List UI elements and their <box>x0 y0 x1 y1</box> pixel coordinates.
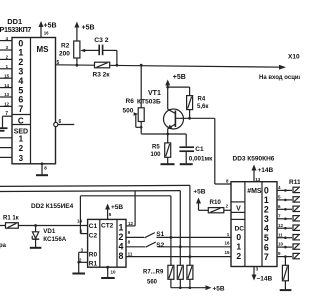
svg-text:6: 6 <box>59 119 62 125</box>
power +5B at DD2 pin 5 <box>105 204 123 220</box>
resistor R4 <box>187 87 209 120</box>
svg-text:R2: R2 <box>61 43 70 50</box>
wire output 5 pin 11 <box>277 232 302 240</box>
multiplexer DD1 box <box>12 38 56 164</box>
connector X10 arrow <box>279 65 286 70</box>
zener diode VD1 <box>32 224 67 247</box>
svg-text:14: 14 <box>77 218 83 223</box>
wire DD2 pin 12 to rail 2 <box>126 191 135 226</box>
svg-text:КТ503Б: КТ503Б <box>137 99 161 106</box>
svg-text:V: V <box>236 206 241 213</box>
power +5B arrow right <box>206 285 225 292</box>
capacitor C3 <box>94 37 109 55</box>
node S1 line to R7 <box>170 236 173 239</box>
svg-text:R4: R4 <box>198 96 206 102</box>
wire output 2 pin 6 <box>277 204 302 212</box>
svg-text:X10: X10 <box>288 54 300 61</box>
svg-text:R10: R10 <box>210 199 222 206</box>
svg-text:8: 8 <box>44 166 47 171</box>
wire input 7 pin 12 <box>0 102 12 107</box>
svg-text:DD3 К590КН6: DD3 К590КН6 <box>233 156 275 163</box>
svg-text:7: 7 <box>5 111 8 117</box>
wire input 0 pin 4 <box>0 36 12 41</box>
ground at ladder termination <box>280 289 292 291</box>
base lead <box>175 117 214 119</box>
svg-text:1: 1 <box>19 135 24 144</box>
svg-text:C2: C2 <box>89 233 98 240</box>
svg-text:8: 8 <box>226 179 229 184</box>
wire bus rail 2 <box>0 191 180 247</box>
wire bus rail 3 <box>80 196 170 238</box>
svg-text:8: 8 <box>119 251 124 261</box>
svg-text:11: 11 <box>278 232 283 237</box>
power +5B at VT1 collector <box>165 74 189 88</box>
svg-text:0,001мк: 0,001мк <box>189 155 213 162</box>
svg-text:7: 7 <box>18 104 23 114</box>
R2 wiper arrow <box>80 49 85 53</box>
wire input 5 pin 14 <box>0 83 12 88</box>
svg-text:10: 10 <box>111 270 117 275</box>
counter DD2 <box>88 219 126 267</box>
svg-text:0: 0 <box>236 232 241 242</box>
wire DD1 output to X10 <box>56 65 284 67</box>
wire bus rail 1 <box>0 185 190 256</box>
wire output 6 pin 10 <box>277 242 302 250</box>
svg-text:200: 200 <box>59 51 70 58</box>
svg-text:560: 560 <box>147 279 158 285</box>
svg-text:0: 0 <box>264 185 269 195</box>
svg-text:R5: R5 <box>152 144 160 150</box>
svg-text:CT2: CT2 <box>101 222 114 229</box>
svg-text:2: 2 <box>226 203 229 208</box>
svg-text:C1: C1 <box>89 223 98 230</box>
svg-text:15: 15 <box>4 73 9 78</box>
svg-text:+5В: +5В <box>111 204 123 211</box>
svg-text:5,6к: 5,6к <box>197 104 208 110</box>
address labels 1 2 3 <box>19 135 24 164</box>
svg-text:7: 7 <box>278 213 281 218</box>
svg-text:+5В: +5В <box>82 25 95 32</box>
wire SED address 1 <box>0 137 12 139</box>
collector <box>168 109 176 113</box>
svg-text:3: 3 <box>19 154 24 163</box>
svg-text:КС156А: КС156А <box>43 236 66 243</box>
svg-text:1: 1 <box>80 228 83 233</box>
switch S2 <box>126 239 231 248</box>
svg-text:+14В: +14В <box>258 167 274 174</box>
svg-text:R1 1к: R1 1к <box>3 215 19 221</box>
channel labels 0-7 <box>264 185 269 261</box>
svg-text:8: 8 <box>128 239 131 244</box>
svg-text:16: 16 <box>44 31 49 36</box>
output weight labels 1 2 4 8 <box>119 222 124 260</box>
wire SED address 2 <box>0 147 12 149</box>
wire output 4 pin 12 <box>277 223 302 231</box>
svg-text:12: 12 <box>128 221 134 226</box>
pin 6 with bubble <box>54 119 75 127</box>
svg-text:2: 2 <box>79 257 82 262</box>
svg-text:S1: S1 <box>156 231 164 238</box>
resistor ladder termination <box>282 257 288 290</box>
ground at DD1 pin 7 <box>0 128 8 131</box>
svg-text:4: 4 <box>278 185 281 190</box>
power -14B at DD3 pin 3 <box>252 267 273 283</box>
power +14B at DD3 pin 13 <box>252 165 274 182</box>
svg-text:MS: MS <box>37 45 50 54</box>
wire SED address 3 <box>0 156 12 158</box>
wire R0 R1 to ground <box>77 248 87 273</box>
wire output 1 pin 5 <box>277 195 302 203</box>
svg-text:DD2 К155ИЕ4: DD2 К155ИЕ4 <box>31 203 74 210</box>
svg-text:R11: R11 <box>289 179 300 186</box>
transistor VT1 <box>137 87 215 134</box>
svg-text:R3 2к: R3 2к <box>93 71 111 78</box>
resistors R7...R9 <box>143 237 193 285</box>
DC address labels 0 1 2 <box>236 232 241 261</box>
svg-text:5: 5 <box>109 212 112 217</box>
resistor R10 <box>208 199 231 213</box>
wire DD2 pin 11 to DD3 DC2 <box>126 252 231 257</box>
svg-text:4: 4 <box>119 241 124 251</box>
svg-text:5: 5 <box>278 195 281 200</box>
svg-text:R6: R6 <box>126 98 135 105</box>
ground at R5 <box>161 163 175 165</box>
capacitor C1 <box>179 146 213 164</box>
resistor R6 (trimmer) <box>123 65 145 134</box>
resistor R2 <box>59 22 95 67</box>
svg-text:+5В: +5В <box>173 74 186 81</box>
input channel labels 0-7 <box>18 38 23 114</box>
switch S1 <box>126 230 231 238</box>
wire input 1 pin 3 <box>0 45 12 50</box>
svg-text:ра: ра <box>0 243 7 249</box>
svg-text:4: 4 <box>264 223 269 233</box>
svg-text:C3 2: C3 2 <box>94 37 109 44</box>
svg-text:+5В: +5В <box>193 188 205 195</box>
ground at DD2 R0 R1 <box>72 273 85 275</box>
svg-text:3: 3 <box>264 214 269 224</box>
svg-text:2: 2 <box>119 232 124 242</box>
svg-text:1: 1 <box>264 195 269 205</box>
wire VT1 base to DD3 pin 8 <box>215 118 231 184</box>
svg-text:12: 12 <box>4 102 9 107</box>
svg-text:13: 13 <box>4 92 9 97</box>
svg-text:2: 2 <box>19 144 24 153</box>
svg-text:R1: R1 <box>89 260 98 267</box>
svg-text:11: 11 <box>128 252 133 257</box>
wire input 3 pin 1 <box>0 64 12 69</box>
wire R2 wiper to C3 <box>84 49 99 51</box>
svg-text:12: 12 <box>278 223 284 228</box>
emitter with arrow <box>168 124 175 129</box>
wire input 6 pin 13 <box>0 92 12 97</box>
wire R7-R9 bottoms to +5B <box>171 279 209 289</box>
R6 wiper <box>134 112 139 115</box>
ground at DD2 pin 10 <box>101 266 116 278</box>
svg-text:R7...R9: R7...R9 <box>143 270 164 276</box>
node S2 line to R8 <box>179 245 182 248</box>
svg-text:6: 6 <box>278 204 281 209</box>
svg-text:#MS: #MS <box>247 188 262 195</box>
svg-text:C: C <box>18 116 24 125</box>
svg-text:1: 1 <box>227 232 230 237</box>
svg-text:−14В: −14В <box>257 276 273 283</box>
power +5B at R10 <box>193 188 208 210</box>
svg-text:15: 15 <box>224 250 230 255</box>
wire input 4 pin 15 <box>0 73 12 78</box>
power +5B at DD1 pin 16 <box>39 21 57 38</box>
analog multiplexer DD3 <box>231 182 277 267</box>
wire output 3 pin 7 <box>277 213 302 221</box>
svg-text:+5В: +5В <box>213 285 225 292</box>
svg-text:9: 9 <box>128 230 131 235</box>
node R6 top <box>140 64 143 67</box>
svg-text:R0: R0 <box>89 252 98 259</box>
svg-text:На вход осцил: На вход осцил <box>259 75 300 81</box>
svg-text:S2: S2 <box>156 242 164 249</box>
svg-text:VT1: VT1 <box>148 90 161 97</box>
wire C3 to line <box>103 50 119 66</box>
svg-text:C1: C1 <box>195 146 204 153</box>
svg-text:16: 16 <box>224 240 230 245</box>
node emitter junction <box>166 133 169 136</box>
ground at DD1 pin 8 <box>36 162 48 175</box>
svg-text:Р1533КП7: Р1533КП7 <box>0 25 31 34</box>
ground at VD1 <box>30 247 42 249</box>
svg-text:500: 500 <box>123 108 134 115</box>
svg-text:+5В: +5В <box>44 22 57 29</box>
multiplexer DD1 КР1533КП7 <box>0 17 56 164</box>
svg-text:2: 2 <box>236 251 241 261</box>
wire input 2 pin 2 <box>0 55 12 60</box>
wire R6 to emitter node <box>141 133 168 135</box>
ground at C1 <box>180 163 193 165</box>
svg-text:2: 2 <box>264 204 269 214</box>
svg-text:3: 3 <box>256 267 259 272</box>
node DC2 to R9 <box>189 255 192 258</box>
svg-text:7: 7 <box>264 252 269 262</box>
svg-text:9: 9 <box>278 251 281 256</box>
svg-text:5: 5 <box>264 233 269 243</box>
wire emitter node to C1 <box>168 134 187 146</box>
svg-text:14: 14 <box>4 83 9 88</box>
svg-text:6: 6 <box>264 242 269 252</box>
resistor R3 <box>93 62 111 78</box>
svg-text:13: 13 <box>255 177 261 182</box>
resistor R1 <box>0 215 88 228</box>
resistor R5 <box>151 134 171 163</box>
svg-text:1: 1 <box>236 241 241 251</box>
svg-text:VD1: VD1 <box>43 228 56 235</box>
svg-text:10: 10 <box>278 242 284 247</box>
svg-text:100: 100 <box>151 152 162 158</box>
svg-text:1: 1 <box>119 222 124 232</box>
wire output 7 pin 9 <box>277 251 302 259</box>
wire output 0 pin 4 <box>277 185 302 193</box>
wire C input pin 7 <box>3 111 13 128</box>
